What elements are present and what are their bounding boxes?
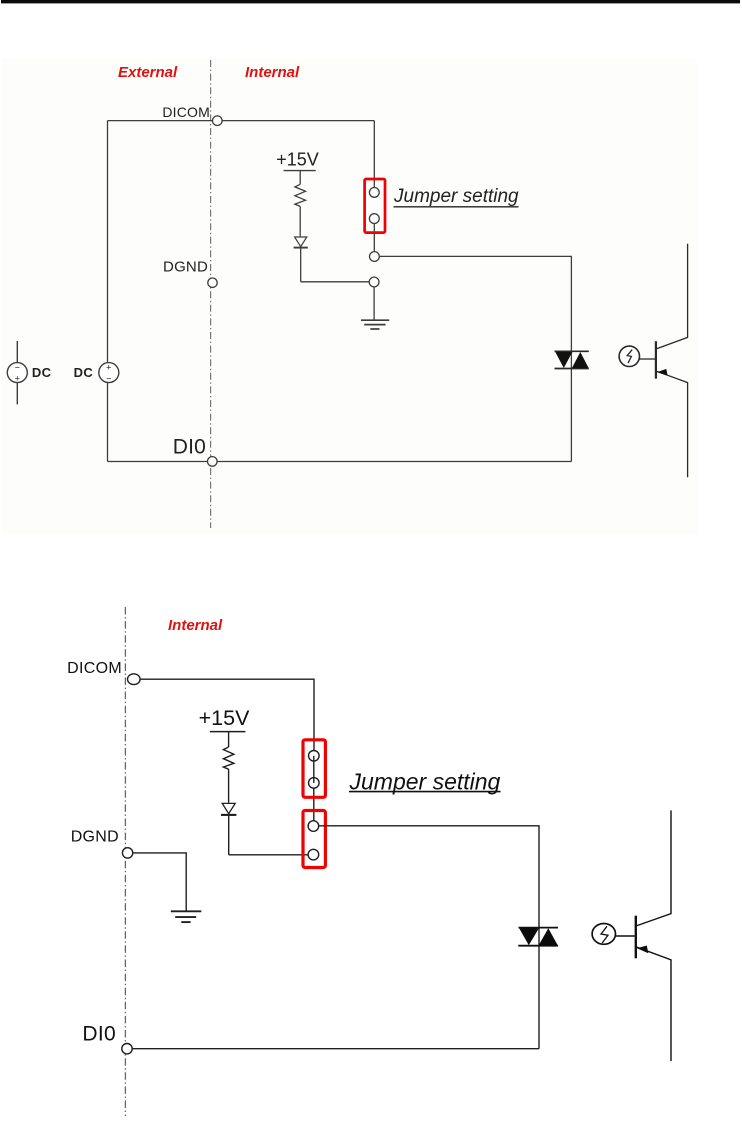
diode D1 (fig2)	[221, 803, 236, 854]
optocoupler LED pair U1 (fig1)	[555, 351, 589, 368]
svg-text:Jumper setting: Jumper setting	[393, 186, 519, 207]
jumper highlight box JP (fig1)	[365, 179, 385, 233]
svg-text:+15V: +15V	[276, 150, 319, 170]
optocoupler LED pair U1 (fig2)	[518, 928, 558, 946]
svg-text:DI0: DI0	[82, 1023, 116, 1046]
DC source V2 in external loop	[99, 362, 119, 383]
wire pin4 to ground (fig1)	[373, 287, 375, 320]
wire jumper pin3 to optocoupler (fig1)	[379, 256, 571, 351]
photo indicator circle (fig2)	[592, 924, 615, 945]
svg-text:DC: DC	[74, 365, 94, 380]
jumper pin 4 (fig1)	[369, 277, 379, 287]
svg-text:+: +	[106, 362, 111, 372]
resistor R1 (fig1)	[295, 171, 306, 237]
wire pin2 to pin3 (fig2)	[313, 788, 315, 821]
terminal DGND (fig1)	[208, 278, 217, 287]
svg-text:+: +	[15, 373, 20, 383]
transistor Q1 (fig1)	[656, 244, 688, 478]
wire optocoupler to DI0 (fig2)	[538, 928, 540, 1049]
wire DICOM to jumper (fig2)	[140, 679, 314, 750]
svg-text:DICOM: DICOM	[162, 104, 210, 120]
transistor Q1 base wire (fig2)	[615, 935, 635, 937]
wire DI0 horizontal (fig1)	[108, 461, 572, 463]
terminal DGND (fig2)	[122, 848, 132, 858]
svg-text:DGND: DGND	[163, 259, 208, 276]
svg-text:Internal: Internal	[168, 617, 223, 634]
jumper pin 2 (fig2)	[309, 778, 320, 789]
jumper highlight box JP upper (fig2)	[303, 740, 325, 798]
wire DGND to ground (fig2)	[133, 853, 186, 911]
wire DICOM horizontal (fig1)	[108, 120, 375, 122]
wire diode to jumper pin (fig1)	[301, 281, 370, 283]
transistor Q1 (fig2)	[636, 810, 671, 1061]
photo indicator circle (fig1)	[619, 346, 639, 366]
wire optocoupler to DI0 (fig1)	[570, 351, 572, 461]
wire external left vertical (fig1)	[107, 121, 109, 362]
jumper pin 1 (fig1)	[369, 188, 379, 198]
diode D1 (fig1)	[294, 237, 308, 282]
terminal DICOM (fig1)	[213, 116, 223, 126]
terminal DI0 (fig1)	[208, 457, 218, 467]
transistor Q1 base wire (fig1)	[639, 358, 655, 360]
svg-text:DC: DC	[32, 365, 52, 380]
jumper shunt wire pin1-pin2 (fig2)	[313, 756, 315, 783]
wire jumper pin3 to optocoupler (fig2)	[319, 826, 539, 928]
transistor Q1 emitter arrow (fig1)	[657, 369, 668, 376]
wire pin2 to pin3 (fig1)	[373, 224, 375, 252]
svg-text:Jumper setting: Jumper setting	[349, 768, 501, 794]
wire DI0 horizontal (fig2)	[132, 1048, 539, 1050]
svg-text:+15V: +15V	[199, 706, 250, 730]
svg-text:DI0: DI0	[173, 436, 206, 459]
svg-text:DICOM: DICOM	[67, 660, 122, 677]
svg-text:Internal: Internal	[245, 64, 300, 81]
svg-text:−: −	[106, 373, 111, 383]
wire DICOM drop into jumper (fig1)	[373, 121, 375, 188]
resistor R1 (fig2)	[223, 732, 234, 803]
terminal DI0 (fig2)	[122, 1044, 132, 1054]
boundary dashed divider (figure 2)	[124, 607, 126, 1116]
wire diode to jumper pin4 (fig2)	[229, 854, 308, 856]
svg-text:DGND: DGND	[71, 829, 119, 846]
power rail +15V (fig2)	[210, 731, 246, 733]
jumper pin 3 (fig1)	[370, 252, 380, 262]
transistor Q1 emitter arrow (fig2)	[637, 946, 648, 954]
figure 1 background	[1, 58, 698, 535]
jumper pin 1 (fig2)	[309, 751, 320, 762]
page top rule	[1, 0, 740, 3]
jumper pin 2 (fig1)	[369, 214, 379, 224]
jumper pin 3 (fig2)	[308, 821, 319, 832]
svg-text:−: −	[15, 362, 20, 372]
power rail +15V (fig1)	[284, 170, 316, 172]
DC source V1 external floating	[7, 341, 27, 405]
ground symbol (fig1)	[361, 320, 389, 329]
jumper highlight box JP lower (fig2)	[303, 811, 325, 868]
terminal DICOM (fig2)	[128, 674, 141, 685]
svg-text:External: External	[118, 64, 178, 81]
jumper pin 4 (fig2)	[308, 849, 319, 860]
ground symbol (fig2)	[171, 911, 202, 922]
wire external left vertical lower (fig1)	[107, 383, 109, 462]
boundary dashed divider (figure 1)	[210, 60, 212, 528]
